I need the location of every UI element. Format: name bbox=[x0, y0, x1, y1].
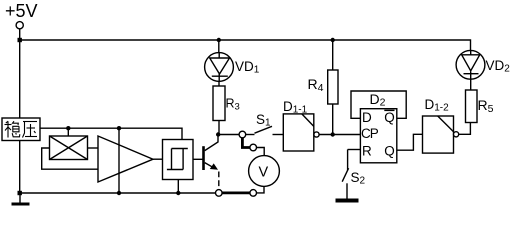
schmitt shaper outer box bbox=[163, 140, 194, 180]
probe lead (thick) on rail bbox=[222, 191, 250, 194]
probe jack lower bbox=[250, 190, 257, 197]
junction: R4 bottom node bbox=[331, 132, 335, 136]
wire: R5 to VD2 bbox=[470, 79, 472, 90]
wire: regulator output (Vcc to oscillator stages) bbox=[40, 128, 182, 139]
svg-text:R4: R4 bbox=[308, 76, 324, 94]
junction: rail at R4 column bbox=[331, 38, 335, 42]
glyph 稳 bbox=[5, 121, 20, 137]
svg-text:D1-2: D1-2 bbox=[425, 97, 450, 114]
wire: R down to S2 bbox=[347, 150, 349, 171]
ground (S2) bbox=[336, 199, 359, 203]
junction: bottom rail at +5V column bbox=[18, 191, 22, 195]
VD2 diode triangle bbox=[462, 55, 480, 71]
wire: VD1 anode from rail bbox=[218, 40, 220, 53]
wire: R4 to node bbox=[332, 104, 334, 135]
svg-text:D1-1: D1-1 bbox=[283, 99, 308, 116]
ground (left) bbox=[12, 203, 30, 206]
svg-text:R3: R3 bbox=[226, 97, 240, 113]
wire: S1 to D1-1 bbox=[273, 134, 284, 136]
VD1 cathode bar bbox=[212, 75, 228, 77]
inverter D1-2 bbox=[423, 116, 454, 153]
regulator box 稳压 bbox=[2, 118, 40, 141]
D2 flip-flop body bbox=[360, 109, 396, 163]
top power rail wire bbox=[20, 40, 471, 50]
wire: D1-1 output to CP node bbox=[319, 134, 360, 136]
svg-text:S1: S1 bbox=[256, 112, 271, 129]
LED VD2 circle bbox=[456, 50, 485, 79]
svg-text:R: R bbox=[362, 144, 372, 159]
junction: bottom rail at amp column bbox=[117, 191, 121, 195]
S1 blade bbox=[246, 134, 255, 136]
amplifier triangle bbox=[98, 136, 153, 182]
junction: osc Vcc at amplifier bbox=[117, 126, 121, 130]
inverter D1-1 bbox=[283, 114, 314, 151]
wire: R input stub bbox=[348, 149, 361, 151]
transistor VT base bar bbox=[202, 146, 205, 170]
transistor emitter with arrow bbox=[205, 163, 216, 169]
junction: osc Vcc at crystal bbox=[66, 126, 70, 130]
svg-text:CP: CP bbox=[361, 126, 379, 141]
svg-text:VD1: VD1 bbox=[235, 59, 260, 76]
wire: D1-2 output up to R5 bbox=[459, 123, 471, 135]
wire: collector node to S1 bbox=[218, 134, 239, 136]
VD1 diode triangle bbox=[210, 58, 230, 74]
probe jack on rail bbox=[216, 190, 223, 197]
wire: amp output bbox=[153, 158, 163, 160]
wire: Q output to D1-2 bbox=[397, 134, 423, 150]
wire: schmitt bottom stub to rail bbox=[177, 180, 179, 194]
svg-text:VD2: VD2 bbox=[486, 58, 511, 75]
+5V terminal circle bbox=[16, 22, 23, 29]
svg-text:D2: D2 bbox=[370, 91, 386, 109]
resistor R3 bbox=[213, 86, 225, 121]
svg-text:+5V: +5V bbox=[5, 1, 38, 21]
wire: regulator to ground rail bbox=[19, 141, 21, 194]
voltmeter V bbox=[249, 156, 280, 187]
wire: amp power vertical through bbox=[118, 128, 120, 193]
pulse symbol bbox=[167, 169, 183, 171]
wire: schmitt output to transistor base bbox=[193, 158, 204, 160]
svg-text:Q: Q bbox=[384, 144, 395, 159]
wire: voltmeter bottom lead bbox=[257, 186, 265, 193]
D flip-flop D2 feedback loop (D to Qbar) bbox=[351, 91, 406, 118]
resistor R5 bbox=[466, 90, 478, 123]
junction: rail at VD1 column bbox=[217, 38, 221, 42]
dashed link emitter to probe jack bbox=[218, 172, 220, 190]
junction: collector node bbox=[216, 132, 220, 136]
wire: rail to R4 bbox=[332, 40, 334, 70]
probe jack upper bbox=[250, 144, 257, 151]
svg-text:V: V bbox=[259, 165, 269, 181]
svg-text:R5: R5 bbox=[478, 97, 494, 115]
VD2 cathode bar bbox=[464, 73, 479, 75]
wire: crystal top stub bbox=[67, 128, 69, 136]
glyph 压 bbox=[23, 122, 38, 138]
svg-text:S2: S2 bbox=[351, 170, 366, 187]
wire: R3 to collector node bbox=[218, 121, 220, 135]
wire: crystal left loop bbox=[42, 148, 98, 169]
bottom ground rail wire bbox=[20, 192, 216, 194]
svg-text:Q: Q bbox=[384, 110, 395, 125]
resistor R4 bbox=[328, 70, 338, 104]
wire: +5V vertical drop to regulator bbox=[19, 29, 21, 118]
switch S1 terminal circle bbox=[239, 131, 246, 138]
crystal box with X bbox=[50, 136, 88, 160]
transistor collector bbox=[205, 136, 218, 151]
svg-text:D: D bbox=[362, 110, 372, 125]
switch S2 blade bbox=[342, 168, 348, 182]
probe lead (thick) from S1 node bbox=[242, 138, 250, 148]
junction: rail at +5V column bbox=[18, 38, 22, 42]
wire: VD1 to R3 bbox=[218, 81, 220, 86]
wire: S2 to ground bbox=[346, 183, 348, 198]
wire: jack to voltmeter top bbox=[257, 148, 265, 156]
junction: bottom rail at schmitt column bbox=[176, 191, 180, 195]
LED VD1 circle bbox=[205, 53, 234, 82]
wire: crystal right to amp bbox=[88, 147, 99, 149]
